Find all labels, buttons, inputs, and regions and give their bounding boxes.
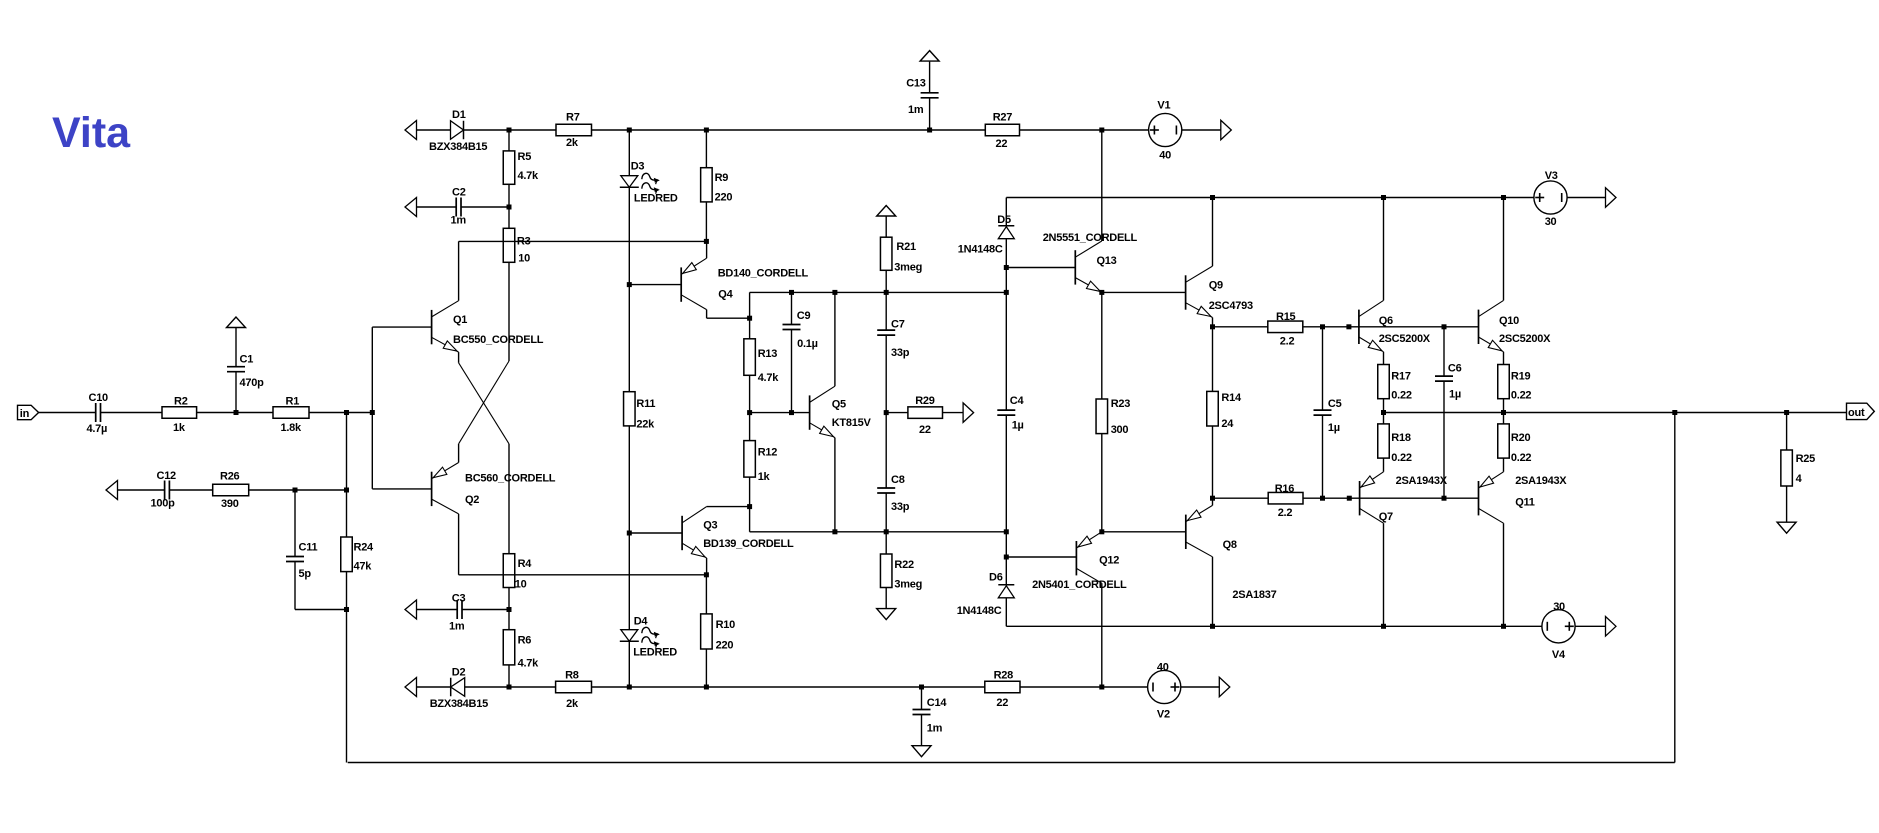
svg-text:220: 220 <box>715 192 733 204</box>
svg-text:2SA1943X: 2SA1943X <box>1396 475 1448 487</box>
svg-text:30: 30 <box>1545 216 1557 228</box>
svg-text:30: 30 <box>1553 601 1565 613</box>
svg-text:R27: R27 <box>993 112 1013 124</box>
svg-text:C8: C8 <box>891 474 905 486</box>
svg-text:2N5401_CORDELL: 2N5401_CORDELL <box>1032 579 1127 591</box>
svg-text:C14: C14 <box>927 697 948 709</box>
svg-text:R9: R9 <box>715 172 729 184</box>
svg-text:C10: C10 <box>89 392 109 404</box>
svg-text:C5: C5 <box>1328 398 1342 410</box>
svg-text:R16: R16 <box>1275 483 1295 495</box>
svg-text:R15: R15 <box>1276 311 1296 323</box>
svg-text:0.1µ: 0.1µ <box>797 338 818 350</box>
svg-text:R20: R20 <box>1511 432 1531 444</box>
svg-text:2k: 2k <box>566 137 579 149</box>
svg-text:C3: C3 <box>452 593 466 605</box>
svg-text:300: 300 <box>1111 424 1129 436</box>
svg-text:1µ: 1µ <box>1012 420 1024 432</box>
svg-text:2k: 2k <box>566 698 579 710</box>
svg-text:0.22: 0.22 <box>1391 390 1412 402</box>
svg-text:Q13: Q13 <box>1097 255 1117 267</box>
svg-text:C11: C11 <box>299 542 318 554</box>
svg-text:1k: 1k <box>173 422 186 434</box>
svg-text:Q10: Q10 <box>1499 315 1519 327</box>
svg-text:D5: D5 <box>997 214 1011 226</box>
svg-text:R2: R2 <box>174 396 188 408</box>
svg-text:R24: R24 <box>354 542 375 554</box>
svg-text:out: out <box>1848 407 1865 419</box>
svg-text:1N4148C: 1N4148C <box>957 605 1002 617</box>
svg-text:1.8k: 1.8k <box>281 422 303 434</box>
svg-text:2N5551_CORDELL: 2N5551_CORDELL <box>1043 232 1138 244</box>
svg-text:2SC4793: 2SC4793 <box>1209 300 1253 312</box>
svg-text:R29: R29 <box>915 395 935 407</box>
svg-text:C7: C7 <box>891 319 905 331</box>
svg-text:R21: R21 <box>896 241 916 253</box>
svg-text:R6: R6 <box>518 635 532 647</box>
svg-text:2SC5200X: 2SC5200X <box>1379 333 1431 345</box>
svg-text:3meg: 3meg <box>894 579 922 591</box>
svg-text:V4: V4 <box>1552 649 1566 661</box>
svg-text:R14: R14 <box>1221 392 1242 404</box>
svg-text:100p: 100p <box>151 498 176 510</box>
svg-text:Q7: Q7 <box>1379 511 1393 523</box>
svg-text:D3: D3 <box>631 161 645 173</box>
svg-text:LEDRED: LEDRED <box>634 193 678 205</box>
svg-text:22: 22 <box>996 138 1008 150</box>
svg-text:2SA1837: 2SA1837 <box>1232 589 1276 601</box>
svg-text:R28: R28 <box>994 670 1014 682</box>
svg-text:R8: R8 <box>565 670 579 682</box>
svg-text:D4: D4 <box>634 616 649 628</box>
svg-text:Q4: Q4 <box>718 289 733 301</box>
svg-text:Q9: Q9 <box>1209 280 1223 292</box>
svg-text:D2: D2 <box>452 667 466 679</box>
svg-text:R23: R23 <box>1111 398 1131 410</box>
svg-text:1m: 1m <box>449 621 465 633</box>
svg-text:Q8: Q8 <box>1223 539 1237 551</box>
svg-text:2SC5200X: 2SC5200X <box>1499 333 1551 345</box>
svg-text:D6: D6 <box>989 572 1003 584</box>
svg-text:Q11: Q11 <box>1515 497 1535 509</box>
svg-text:1µ: 1µ <box>1328 422 1340 434</box>
svg-text:Vita: Vita <box>52 109 131 157</box>
svg-text:220: 220 <box>716 640 734 652</box>
svg-text:0.22: 0.22 <box>1511 390 1532 402</box>
svg-text:R4: R4 <box>518 558 533 570</box>
svg-text:BC560_CORDELL: BC560_CORDELL <box>465 473 556 485</box>
svg-text:Q1: Q1 <box>453 314 467 326</box>
svg-text:R19: R19 <box>1511 371 1531 383</box>
svg-text:22k: 22k <box>636 419 655 431</box>
svg-text:1k: 1k <box>758 471 771 483</box>
svg-text:R22: R22 <box>894 559 914 571</box>
svg-text:5p: 5p <box>299 568 312 580</box>
svg-text:R11: R11 <box>636 398 655 410</box>
svg-text:V3: V3 <box>1545 170 1558 182</box>
svg-text:C1: C1 <box>240 354 254 366</box>
svg-text:C4: C4 <box>1010 395 1025 407</box>
svg-text:R18: R18 <box>1391 432 1411 444</box>
svg-text:C6: C6 <box>1448 363 1462 375</box>
svg-text:33p: 33p <box>891 347 910 359</box>
svg-text:BZX384B15: BZX384B15 <box>430 698 488 710</box>
svg-text:C2: C2 <box>452 187 466 199</box>
svg-text:0.22: 0.22 <box>1511 452 1532 464</box>
svg-text:R25: R25 <box>1796 453 1816 465</box>
svg-text:40: 40 <box>1159 150 1171 162</box>
svg-text:R1: R1 <box>286 396 300 408</box>
svg-text:R7: R7 <box>566 112 580 124</box>
svg-text:Q2: Q2 <box>465 494 479 506</box>
svg-text:2.2: 2.2 <box>1280 336 1295 348</box>
svg-text:0.22: 0.22 <box>1391 452 1412 464</box>
svg-text:3meg: 3meg <box>894 262 922 274</box>
svg-text:Q5: Q5 <box>832 399 846 411</box>
svg-text:33p: 33p <box>891 501 910 513</box>
svg-text:47k: 47k <box>354 561 373 573</box>
svg-text:C9: C9 <box>797 310 811 322</box>
svg-text:R5: R5 <box>518 151 532 163</box>
svg-text:4.7k: 4.7k <box>518 170 540 182</box>
svg-text:40: 40 <box>1157 662 1169 674</box>
svg-text:V1: V1 <box>1157 100 1170 112</box>
svg-text:R13: R13 <box>758 348 778 360</box>
svg-text:R3: R3 <box>517 236 531 248</box>
svg-text:1N4148C: 1N4148C <box>958 244 1003 256</box>
svg-text:V2: V2 <box>1157 709 1170 721</box>
svg-text:KT815V: KT815V <box>832 417 872 429</box>
svg-text:C12: C12 <box>157 470 177 482</box>
svg-text:4.7k: 4.7k <box>758 372 780 384</box>
svg-text:4.7k: 4.7k <box>518 658 540 670</box>
svg-text:D1: D1 <box>452 109 466 121</box>
svg-text:1m: 1m <box>927 723 943 735</box>
svg-text:1m: 1m <box>908 104 924 116</box>
svg-text:10: 10 <box>515 579 527 591</box>
svg-text:Q3: Q3 <box>703 520 717 532</box>
svg-text:1µ: 1µ <box>1449 389 1461 401</box>
svg-text:R26: R26 <box>220 471 240 483</box>
svg-text:10: 10 <box>518 253 530 265</box>
svg-text:R10: R10 <box>716 619 736 631</box>
svg-text:2.2: 2.2 <box>1278 507 1293 519</box>
svg-text:BD140_CORDELL: BD140_CORDELL <box>718 268 809 280</box>
svg-text:BZX384B15: BZX384B15 <box>429 141 487 153</box>
svg-text:Q6: Q6 <box>1379 315 1393 327</box>
svg-text:470p: 470p <box>240 377 265 389</box>
svg-text:22: 22 <box>996 697 1008 709</box>
svg-text:LEDRED: LEDRED <box>633 647 677 659</box>
svg-text:24: 24 <box>1221 418 1234 430</box>
svg-text:BD139_CORDELL: BD139_CORDELL <box>703 538 794 550</box>
svg-text:390: 390 <box>221 498 239 510</box>
svg-text:in: in <box>20 408 30 420</box>
svg-text:R12: R12 <box>758 446 778 458</box>
svg-text:22: 22 <box>919 424 931 436</box>
svg-text:R17: R17 <box>1391 371 1411 383</box>
svg-text:1m: 1m <box>451 215 467 227</box>
svg-text:4.7µ: 4.7µ <box>87 423 108 435</box>
svg-text:Q12: Q12 <box>1099 555 1119 567</box>
svg-text:2SA1943X: 2SA1943X <box>1515 475 1567 487</box>
svg-text:C13: C13 <box>906 78 926 90</box>
svg-text:BC550_CORDELL: BC550_CORDELL <box>453 334 544 346</box>
